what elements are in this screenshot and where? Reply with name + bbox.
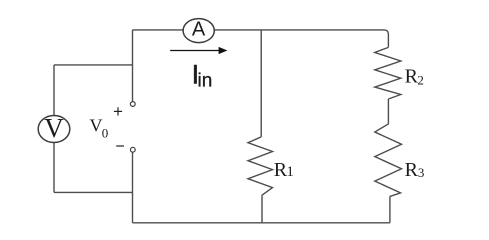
voltmeter V	[38, 113, 70, 143]
wire left top vertical from rail to + terminal	[132, 30, 134, 101]
resistor R3 zigzag	[375, 124, 402, 197]
label Iin	[192, 60, 213, 92]
svg-text:in: in	[198, 70, 213, 91]
wire R2-R3 link stub	[387, 99, 389, 124]
resistor R1 zigzag	[248, 137, 273, 195]
svg-text:V: V	[44, 113, 64, 143]
wire vertical down to voltmeter	[53, 65, 55, 116]
svg-text:2: 2	[417, 72, 424, 87]
wire voltmeter bottom vertical	[53, 142, 55, 192]
label R2	[405, 66, 424, 88]
ammeter A	[183, 18, 214, 42]
svg-text:V: V	[90, 116, 103, 136]
svg-text:R: R	[405, 159, 419, 181]
label V0	[90, 116, 109, 141]
wire from - terminal down to bottom bus	[132, 152, 134, 223]
wire R1 bottom stub	[261, 195, 263, 223]
node + terminal	[114, 102, 135, 116]
svg-text:A: A	[192, 18, 206, 40]
label R1	[274, 159, 294, 181]
svg-text:1: 1	[286, 164, 294, 180]
svg-text:0: 0	[102, 126, 109, 141]
wire R3 bottom stub	[389, 196, 391, 222]
wire bottom-left horizontal	[54, 191, 133, 193]
arrow Iin direction	[170, 47, 227, 54]
wire node junction to R1 branch vertical	[260, 30, 262, 137]
label R3	[405, 159, 425, 181]
wire horizontal V0 top link	[54, 64, 133, 66]
node - terminal	[116, 146, 135, 152]
resistor R2 zigzag	[375, 47, 401, 99]
wire bottom bus	[133, 222, 390, 224]
svg-text:3: 3	[418, 165, 425, 180]
wire top rail	[133, 30, 389, 48]
